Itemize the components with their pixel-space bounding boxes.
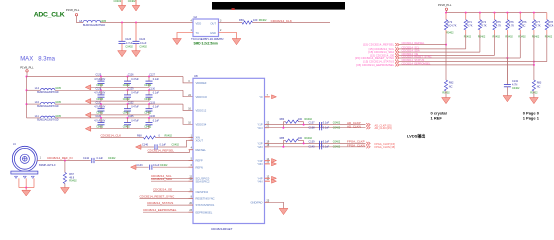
svg-text:AD_CLKN: AD_CLKN: [347, 124, 361, 128]
svg-text:CDC8214_REF_IN: CDC8214_REF_IN: [47, 156, 73, 160]
svg-text:C126: C126: [128, 74, 134, 77]
svg-text:0.1uF: 0.1uF: [323, 146, 330, 149]
svg-text:P1V8_PLL: P1V8_PLL: [66, 8, 80, 12]
svg-text:0.1uF: 0.1uF: [153, 92, 160, 95]
svg-text:0.47uF: 0.47uF: [131, 106, 139, 109]
svg-text:C0402: C0402: [160, 164, 168, 167]
svg-text:C140: C140: [309, 146, 316, 149]
svg-text:4.7K: 4.7K: [509, 24, 515, 28]
svg-text:CDC8214_STATUS: CDC8214_STATUS: [147, 201, 173, 205]
svg-text:4.7K: 4.7K: [467, 24, 473, 28]
svg-text:C133: C133: [149, 101, 155, 104]
svg-text:R77: R77: [535, 20, 540, 24]
svg-text:R75: R75: [496, 20, 501, 24]
svg-text:0.1uF: 0.1uF: [140, 42, 147, 45]
svg-text:C0402: C0402: [108, 157, 116, 160]
svg-text:C127: C127: [149, 74, 155, 77]
svg-text:P1V8_PLL: P1V8_PLL: [20, 65, 34, 69]
svg-text:Y2N: Y2N: [257, 145, 262, 149]
svg-text:R0402: R0402: [505, 35, 513, 38]
svg-text:REFN: REFN: [196, 165, 203, 169]
svg-text:1005: 1005: [100, 19, 106, 23]
svg-text:VDD: VDD: [196, 22, 202, 26]
svg-text:AD_CLKN [15]: AD_CLKN [15]: [375, 126, 392, 130]
svg-text:C0402: C0402: [144, 126, 152, 129]
svg-text:P1V8_PLL: P1V8_PLL: [438, 3, 452, 7]
svg-text:REFP: REFP: [196, 159, 203, 163]
svg-text:NC: NC: [522, 24, 526, 28]
svg-text:LVDS输出: LVDS输出: [407, 132, 425, 138]
svg-text:1005: 1005: [55, 87, 61, 90]
svg-text:TC: TC: [196, 31, 200, 35]
svg-text:4.7K: 4.7K: [496, 24, 502, 28]
svg-text:[15] CDC8214_EEPROMSEL: [15] CDC8214_EEPROMSEL: [356, 63, 394, 67]
svg-text:C139: C139: [309, 141, 316, 144]
svg-text:R76: R76: [509, 20, 514, 24]
svg-text:R0402: R0402: [446, 32, 454, 35]
svg-text:MAX: MAX: [20, 56, 33, 62]
svg-text:Y1N: Y1N: [257, 126, 262, 130]
svg-text:CDC8214_CLK: CDC8214_CLK: [271, 19, 293, 23]
svg-text:C0402: C0402: [114, 0, 122, 3]
svg-text:R0402: R0402: [305, 118, 313, 121]
svg-text:0.47uF: 0.47uF: [131, 119, 139, 122]
svg-text:BLM15AG260TN1D: BLM15AG260TN1D: [37, 119, 59, 122]
svg-text:ADC_CLK: ADC_CLK: [34, 12, 65, 19]
svg-text:R71: R71: [467, 20, 472, 24]
svg-text:R68: R68: [137, 134, 142, 137]
svg-text:BLM15AG260TN1D: BLM15AG260TN1D: [83, 24, 105, 27]
svg-text:Y0: Y0: [259, 95, 263, 99]
svg-text:4.7uF/16V: 4.7uF/16V: [94, 78, 105, 81]
svg-text:R84: R84: [280, 118, 285, 121]
svg-text:C143: C143: [137, 164, 144, 167]
svg-text:GND: GND: [210, 31, 216, 35]
svg-text:0.1uF: 0.1uF: [153, 78, 160, 81]
svg-text:CDC8214_RESET_SYNC: CDC8214_RESET_SYNC: [140, 194, 176, 198]
svg-text:FPGA_CLKN: FPGA_CLKN: [347, 144, 365, 148]
svg-text:Y4N: Y4N: [257, 179, 262, 183]
svg-text:8.3ma: 8.3ma: [38, 56, 55, 62]
svg-text:CDC8214_REFSEL: CDC8214_REFSEL: [148, 148, 175, 152]
svg-text:VDDO12: VDDO12: [196, 109, 207, 113]
svg-text:0.1uF: 0.1uF: [160, 144, 167, 147]
svg-text:NC: NC: [537, 85, 541, 88]
svg-text:XOUT: XOUT: [196, 138, 204, 142]
svg-text:4.7uF/16V: 4.7uF/16V: [94, 119, 105, 122]
svg-text:L12: L12: [35, 87, 40, 90]
svg-text:STATUS/SPIO1: STATUS/SPIO1: [196, 203, 215, 207]
svg-text:CDC8214_REFSEL: CDC8214_REFSEL: [402, 41, 425, 45]
svg-text:R69: R69: [239, 18, 244, 22]
svg-text:REFSEL: REFSEL: [196, 148, 207, 152]
svg-text:1005: 1005: [55, 101, 61, 104]
svg-text:0.1uF: 0.1uF: [153, 164, 160, 167]
svg-text:G2: G2: [194, 15, 198, 19]
svg-text:R0402: R0402: [165, 134, 173, 137]
svg-text:C130: C130: [149, 88, 155, 91]
svg-text:R76: R76: [522, 20, 527, 24]
svg-text:CDC8214_RESET_SYNC: CDC8214_RESET_SYNC: [402, 55, 432, 59]
svg-text:100: 100: [298, 118, 303, 121]
svg-text:NC4.7K: NC4.7K: [548, 24, 554, 28]
svg-text:R0402: R0402: [493, 35, 501, 38]
svg-text:GND/PAD: GND/PAD: [250, 200, 262, 204]
svg-text:CDC8214_EEPROMSEL: CDC8214_EEPROMSEL: [402, 61, 432, 65]
svg-text:1005: 1005: [55, 115, 61, 118]
svg-text:R85: R85: [280, 137, 285, 140]
svg-text:4.7uF/16V: 4.7uF/16V: [94, 92, 105, 95]
svg-text:C0402: C0402: [172, 144, 180, 147]
svg-text:C0603: C0603: [96, 126, 104, 129]
svg-text:SSMP-JHT2-F: SSMP-JHT2-F: [39, 163, 56, 167]
svg-text:BLM15AG260TN1D: BLM15AG260TN1D: [37, 91, 59, 94]
svg-text:C0402: C0402: [139, 46, 147, 49]
svg-text:R74: R74: [481, 20, 486, 24]
svg-text:R0402: R0402: [259, 18, 267, 22]
svg-text:C0402: C0402: [333, 141, 341, 144]
svg-text:4.7K: 4.7K: [535, 24, 541, 28]
svg-text:C123: C123: [125, 38, 132, 41]
svg-text:NC: NC: [449, 85, 453, 88]
svg-text:C0402: C0402: [125, 46, 133, 49]
svg-text:0.1uF: 0.1uF: [323, 122, 330, 125]
svg-text:C0402: C0402: [333, 146, 341, 149]
svg-text:C142: C142: [83, 157, 90, 160]
svg-text:SMD 3.2x2.5mm: SMD 3.2x2.5mm: [194, 41, 218, 45]
svg-text:U8: U8: [194, 74, 198, 78]
svg-text:CDC8214_SDA: CDC8214_SDA: [151, 177, 172, 181]
svg-text:C0402: C0402: [123, 126, 131, 129]
svg-text:NC4.7K: NC4.7K: [447, 24, 456, 28]
svg-text:L10: L10: [35, 101, 40, 104]
svg-text:0.1uF: 0.1uF: [153, 106, 160, 109]
svg-text:R0402: R0402: [69, 180, 77, 183]
svg-text:R0402: R0402: [464, 35, 472, 38]
svg-text:C0402: C0402: [333, 127, 341, 130]
svg-text:R83: R83: [537, 82, 542, 85]
svg-text:100: 100: [298, 137, 303, 140]
svg-text:OE/SPIO4: OE/SPIO4: [196, 190, 209, 194]
svg-text:0.47uF: 0.47uF: [131, 92, 139, 95]
svg-text:C134: C134: [96, 115, 102, 118]
svg-text:FPGA_CLKN [15]: FPGA_CLKN [15]: [375, 145, 396, 149]
svg-text:4.7N: 4.7N: [512, 84, 517, 87]
svg-text:BLM15AG260TN1D: BLM15AG260TN1D: [37, 105, 59, 108]
svg-text:CDC8214_EEPROMSEL: CDC8214_EEPROMSEL: [143, 208, 177, 212]
svg-text:R72: R72: [447, 20, 452, 24]
svg-text:C0402: C0402: [333, 122, 341, 125]
svg-text:4.7uF/16V: 4.7uF/16V: [94, 106, 105, 109]
svg-text:1 REF: 1 REF: [431, 115, 443, 120]
svg-text:C124: C124: [139, 38, 146, 41]
svg-text:SDA/SPIC2: SDA/SPIC2: [196, 179, 211, 183]
svg-text:VDDO34: VDDO34: [196, 122, 207, 126]
svg-text:C125: C125: [96, 74, 102, 77]
svg-text:Y2P: Y2P: [257, 141, 262, 145]
svg-text:TCO-NE05H-16.00MHz: TCO-NE05H-16.00MHz: [191, 37, 224, 41]
svg-text:Y3N: Y3N: [257, 162, 262, 166]
svg-text:CDC8214_CLK: CDC8214_CLK: [101, 133, 122, 137]
svg-text:4.7uF: 4.7uF: [126, 42, 133, 45]
svg-text:C135: C135: [128, 115, 134, 118]
svg-text:0.47uF: 0.47uF: [131, 78, 139, 81]
svg-text:100: 100: [253, 18, 258, 22]
svg-text:EEPROMSEL: EEPROMSEL: [196, 210, 213, 214]
svg-text:C137: C137: [309, 122, 316, 125]
svg-text:R0402: R0402: [305, 137, 313, 140]
svg-text:R0402: R0402: [518, 35, 526, 38]
svg-text:R0402: R0402: [478, 35, 486, 38]
svg-text:0.1uF: 0.1uF: [153, 119, 160, 122]
svg-text:4.7K: 4.7K: [481, 24, 487, 28]
svg-text:VDDVCO: VDDVCO: [196, 95, 208, 99]
svg-text:CDC8214_OE: CDC8214_OE: [153, 188, 172, 192]
svg-text:CDC8214RGET: CDC8214RGET: [211, 227, 233, 231]
svg-text:C132: C132: [512, 80, 519, 83]
svg-text:VDDREF: VDDREF: [196, 81, 207, 85]
svg-text:0.1uF: 0.1uF: [323, 141, 330, 144]
svg-text:C129: C129: [128, 88, 134, 91]
svg-text:0.1uF: 0.1uF: [323, 127, 330, 130]
svg-text:C131: C131: [96, 101, 102, 104]
svg-text:R0402: R0402: [545, 35, 553, 38]
svg-text:C0402: C0402: [512, 87, 520, 90]
svg-text:L11: L11: [35, 115, 40, 118]
svg-text:0.1uF: 0.1uF: [97, 157, 104, 160]
svg-text:C0402: C0402: [128, 0, 136, 3]
svg-text:R78: R78: [548, 20, 553, 24]
svg-text:R82: R82: [449, 82, 454, 85]
svg-text:OUT: OUT: [210, 22, 216, 26]
svg-text:C146: C146: [142, 144, 149, 147]
svg-text:RESETN/SYNC: RESETN/SYNC: [196, 196, 215, 200]
svg-text:R0402: R0402: [532, 35, 540, 38]
svg-text:C136: C136: [149, 115, 155, 118]
svg-text:C132: C132: [128, 101, 134, 104]
svg-text:1 Page 1: 1 Page 1: [523, 115, 540, 120]
svg-text:C138: C138: [309, 127, 316, 130]
svg-text:C128: C128: [96, 88, 102, 91]
